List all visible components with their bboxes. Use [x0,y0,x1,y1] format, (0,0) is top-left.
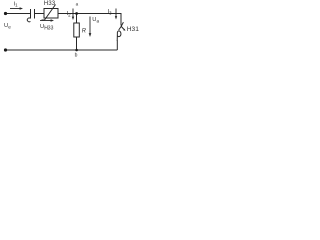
svg-text:a: a [76,1,79,6]
svg-text:UH33: UH33 [40,24,54,32]
svg-text:I2: I2 [67,11,72,17]
svg-text:I3: I3 [108,9,113,15]
svg-text:H31: H31 [127,26,139,33]
svg-text:Ua: Ua [92,17,99,24]
svg-text:Ue: Ue [4,23,11,30]
svg-text:H33: H33 [44,0,56,7]
svg-text:I1: I1 [14,2,19,8]
svg-text:R: R [82,28,87,34]
svg-text:b: b [75,52,78,58]
